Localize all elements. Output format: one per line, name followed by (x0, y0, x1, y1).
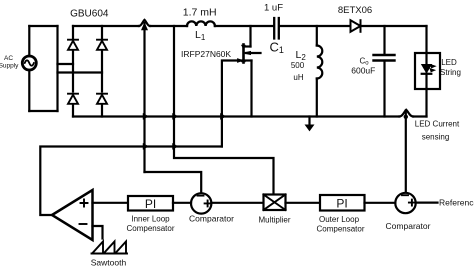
svg-text:8ETX06: 8ETX06 (338, 5, 372, 16)
svg-text:sensing: sensing (422, 133, 450, 142)
svg-text:Compensator: Compensator (126, 224, 174, 233)
node Vin sense line (v1) (142, 23, 202, 193)
node line-shape sense line (v2) (174, 26, 274, 194)
capacitor C1 (274, 18, 279, 39)
op-amp plus input marker (81, 200, 88, 207)
caret LED current sense tap (400, 110, 414, 117)
wire AC to bridge right midpoint (58, 71, 103, 73)
AC source V1 (22, 56, 36, 70)
diode D5 8ETX06 (351, 20, 361, 32)
wire multiplier to PI2 (286, 202, 321, 204)
wire top rail hump to L1 (150, 25, 187, 27)
wire diode to LED corner (361, 25, 427, 27)
LED string box (415, 53, 440, 89)
diode D3 (bridge bottom-left) (68, 94, 78, 104)
wire AC loop bottom (29, 110, 57, 112)
multiplier block (264, 195, 286, 211)
summing comparator 1 (191, 193, 211, 213)
svg-text:uH: uH (293, 73, 303, 82)
diode D4 (bridge bottom-right) (97, 94, 107, 104)
PI block inner loop compensator (128, 196, 173, 211)
svg-text:LED Current: LED Current (415, 120, 460, 129)
wire rail corner to LED string (425, 26, 427, 53)
wire LED string to ground rail (425, 89, 427, 117)
svg-text:Compensator: Compensator (316, 225, 364, 234)
wire comparator1 to multiplier (211, 202, 263, 204)
diode D1 (bridge top-left) (68, 40, 78, 50)
svg-text:1.7 mH: 1.7 mH (183, 7, 217, 19)
svg-text:Comparator: Comparator (386, 221, 431, 231)
svg-text:Outer Loop: Outer Loop (319, 215, 360, 224)
svg-text:IRFP27N60K: IRFP27N60K (181, 49, 231, 59)
wire C1 to diode (280, 25, 351, 27)
wire PI2 to comparator2 (365, 202, 396, 204)
wire reference input (416, 202, 438, 204)
hump crossover on top rail (139, 20, 150, 26)
wire PI1 to comparator1 (173, 202, 191, 204)
svg-text:Reference: Reference (439, 198, 474, 208)
wire Q1 gate vertical (222, 61, 243, 147)
svg-text:Inner Loop: Inner Loop (131, 215, 170, 224)
inductor L2 (317, 26, 323, 117)
svg-text:600uF: 600uF (351, 66, 375, 76)
svg-text:PI: PI (145, 197, 156, 211)
wire op-amp plus input (93, 202, 129, 204)
svg-text:Supply: Supply (0, 63, 19, 70)
ground arrow (306, 117, 314, 131)
transistor Q1 IRFP27N60K (238, 45, 261, 63)
PI block outer loop compensator (320, 195, 365, 211)
wire AC loop right vertical (56, 26, 58, 111)
inductor L1 (187, 21, 215, 26)
wire op-amp output to gate (40, 147, 222, 216)
capacitor Co (374, 26, 395, 117)
svg-text:Multiplier: Multiplier (258, 216, 290, 225)
wire Q1 source to ground (250, 61, 252, 117)
svg-text:AC: AC (4, 55, 13, 62)
bridge left column vertical (72, 26, 74, 117)
summing comparator 2 (395, 193, 415, 213)
wire op-amp minus input to sawtooth (93, 226, 103, 239)
diode D2 (bridge top-right) (97, 40, 107, 50)
wire ground rail (73, 115, 400, 117)
wire AC loop top (29, 25, 57, 27)
wire Q1 drain to rail (249, 26, 251, 47)
svg-text:LED: LED (441, 58, 457, 67)
wire L1 to C1 (215, 25, 273, 27)
sawtooth generator (92, 242, 128, 254)
svg-text:PI: PI (336, 197, 347, 211)
wire AC loop left vertical (28, 26, 30, 111)
op-amp minus input marker (80, 223, 87, 225)
svg-text:500: 500 (291, 61, 305, 70)
junction crossover marks (143, 114, 225, 150)
wire bridge top rail (73, 25, 139, 27)
op-amp U1 (52, 190, 93, 240)
svg-text:Sawtooth: Sawtooth (91, 258, 127, 268)
LED D6 (422, 53, 436, 89)
svg-text:1 uF: 1 uF (264, 3, 283, 14)
svg-text:String: String (440, 68, 461, 77)
wire ground rail right (413, 115, 427, 117)
svg-text:Comparator: Comparator (189, 214, 234, 224)
svg-text:GBU604: GBU604 (70, 9, 109, 20)
bridge right column vertical (101, 26, 103, 117)
wire AC to bridge left midpoint (58, 63, 74, 65)
node LED current sense line (404, 111, 408, 193)
